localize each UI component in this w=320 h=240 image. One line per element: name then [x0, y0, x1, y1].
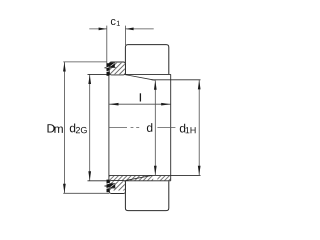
sleeve left end face: [108, 76, 110, 180]
Dm top extension line: [63, 61, 107, 63]
d dimension line: [154, 80, 156, 175]
d arrowhead up: [154, 80, 157, 90]
sleeve right end face: [170, 74, 172, 180]
taper line top: [125, 75, 154, 81]
Dm arrowhead down: [63, 184, 66, 194]
dimension l arrowhead left: [109, 103, 119, 106]
lock washer tab top: [109, 63, 114, 68]
sleeve thread bottom line: [88, 180, 171, 182]
dimension c1 arrowhead left: [99, 28, 107, 31]
lock washer tab bottom: [110, 183, 116, 187]
d2G arrowhead down: [88, 171, 91, 181]
label Dm: [47, 124, 62, 133]
sleeve section hatch bottom right piece: [157, 176, 170, 181]
label c1: [111, 19, 120, 26]
dimension c1 line left tail: [89, 28, 106, 30]
dimension c1 extension line right: [124, 26, 126, 45]
shaft bore line bottom: [109, 174, 201, 176]
dimension c1 line right tail: [126, 28, 154, 30]
taper line bottom: [125, 175, 152, 180]
lock nut top: [109, 62, 125, 75]
sleeve thread top line: [88, 73, 171, 75]
lock nut bottom: [109, 181, 125, 194]
lock washer top: [107, 63, 110, 76]
dimension c1 arrowhead right: [126, 28, 134, 31]
label l: [139, 93, 141, 101]
d1H arrowhead down: [198, 166, 201, 176]
dimension l arrowhead right: [161, 103, 171, 106]
bearing ring block top: [125, 45, 168, 75]
Dm bottom extension line: [63, 192, 109, 194]
Dm arrowhead up: [63, 62, 66, 72]
Dm dimension line: [63, 62, 65, 193]
label d1H: [180, 124, 196, 134]
d2G dimension line: [89, 75, 91, 181]
d1H dimension line: [198, 80, 200, 175]
shaft seat line top: [152, 79, 201, 81]
dimension c1 extension line left: [106, 26, 108, 70]
center line: [109, 127, 175, 129]
d2G arrowhead up: [88, 75, 91, 85]
d1H arrowhead up: [198, 80, 201, 90]
label d: [147, 123, 152, 132]
dimension l line: [109, 103, 170, 105]
sleeve section hatch bottom left piece: [109, 176, 153, 181]
lock washer bottom: [107, 180, 110, 193]
label d2G: [70, 124, 87, 134]
bearing ring block bottom: [125, 181, 168, 211]
d arrowhead down: [154, 166, 157, 176]
